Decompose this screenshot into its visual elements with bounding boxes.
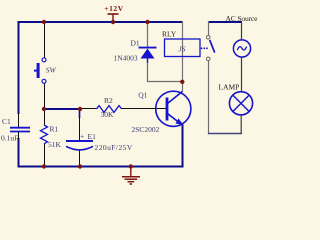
wire bottom ground rail <box>18 166 184 168</box>
AC source <box>226 14 259 57</box>
transistor Q1 <box>132 91 191 134</box>
svg-text:AC Source: AC Source <box>226 14 259 23</box>
wire R2 left pin <box>80 108 97 110</box>
wire collector pin <box>182 82 184 92</box>
svg-text:2SC2002: 2SC2002 <box>132 125 160 134</box>
lamp LAMP <box>219 83 253 115</box>
svg-text:+: + <box>80 132 84 141</box>
junction node E1 top <box>78 107 82 111</box>
capacitor C1 <box>1 113 30 143</box>
wire lamp bottom pin <box>240 115 242 134</box>
junction R1 bottom <box>42 164 46 168</box>
junction node left <box>42 107 46 111</box>
wire left rail lower <box>18 138 20 167</box>
junction ground <box>129 164 133 168</box>
svg-text:C1: C1 <box>2 117 11 126</box>
relay contact <box>206 36 214 61</box>
wire contact bottom to lamp loop <box>208 61 210 134</box>
svg-text:220uF/25V: 220uF/25V <box>95 143 133 152</box>
diode D1 <box>114 21 157 63</box>
resistor R1 <box>41 109 62 167</box>
relay RLY <box>162 30 200 57</box>
dotted actuation line <box>201 47 208 49</box>
wire base pin <box>122 108 166 110</box>
wire switch bottom pin <box>44 83 46 109</box>
wire diode anode to collector node <box>148 63 183 82</box>
relay contact top pin <box>208 21 210 36</box>
svg-text:51K: 51K <box>48 140 62 149</box>
svg-text:30K: 30K <box>101 110 115 119</box>
svg-text:LAMP: LAMP <box>219 83 240 92</box>
svg-text:JS: JS <box>178 45 185 54</box>
relay RLY coil wire <box>182 21 184 82</box>
svg-text:0.1uF: 0.1uF <box>1 134 18 143</box>
wire AC source bottom to lamp <box>241 57 243 92</box>
svg-text:Q1: Q1 <box>138 91 147 100</box>
junction E1 bottom <box>78 164 82 168</box>
wire node row between junctions <box>44 108 80 110</box>
wire AC loop top <box>208 21 242 23</box>
junction collector node <box>180 80 184 84</box>
power symbol +12V <box>104 4 123 24</box>
wire switch top pin <box>44 22 46 58</box>
wire AC source top pin <box>241 22 243 40</box>
ground <box>122 167 140 185</box>
wire emitter to bottom rail <box>182 125 184 168</box>
svg-text:1N4003: 1N4003 <box>114 54 138 63</box>
svg-text:R2: R2 <box>104 96 113 105</box>
svg-text:R1: R1 <box>50 124 59 133</box>
svg-text:RLY: RLY <box>162 30 177 39</box>
junction at switch top <box>42 20 46 24</box>
wire top +12V rail <box>18 21 183 23</box>
switch SW <box>34 58 57 84</box>
resistor R2 <box>97 96 122 119</box>
junction at diode top <box>145 20 149 24</box>
svg-text:+12V: +12V <box>104 4 123 13</box>
capacitor E1 electrolytic <box>66 109 133 167</box>
wire left rail <box>18 21 20 114</box>
svg-text:D1: D1 <box>131 39 140 48</box>
svg-text:E1: E1 <box>88 132 97 141</box>
svg-text:SW: SW <box>46 66 57 75</box>
